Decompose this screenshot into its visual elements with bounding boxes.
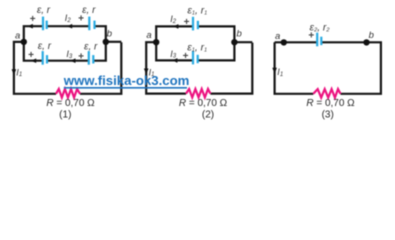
svg-text:(1): (1) — [59, 110, 71, 121]
svg-text:ε, r: ε, r — [84, 41, 98, 52]
svg-text:+: + — [308, 31, 314, 42]
svg-text:www.fisika-ok3.com: www.fisika-ok3.com — [63, 73, 190, 88]
svg-text:a: a — [275, 31, 280, 42]
svg-text:+: + — [184, 17, 190, 28]
svg-text:b: b — [369, 30, 374, 41]
svg-text:R = 0,70 Ω: R = 0,70 Ω — [306, 98, 355, 109]
svg-text:a: a — [15, 30, 20, 41]
svg-text:+: + — [183, 51, 189, 62]
svg-text:R = 0,70 Ω: R = 0,70 Ω — [179, 98, 228, 109]
svg-text:+: + — [78, 51, 84, 62]
svg-text:b: b — [107, 29, 112, 40]
svg-text:ε, r: ε, r — [38, 41, 52, 52]
svg-text:+: + — [78, 13, 84, 24]
svg-text:R = 0,70 Ω: R = 0,70 Ω — [46, 98, 95, 109]
svg-text:ε, r: ε, r — [82, 5, 96, 16]
svg-text:a: a — [146, 30, 151, 41]
svg-text:+: + — [28, 50, 34, 61]
svg-text:(3): (3) — [322, 110, 334, 121]
svg-text:+: + — [30, 14, 36, 25]
svg-text:(2): (2) — [202, 110, 214, 121]
svg-text:ε, r: ε, r — [37, 5, 51, 16]
svg-text:b: b — [237, 29, 242, 40]
